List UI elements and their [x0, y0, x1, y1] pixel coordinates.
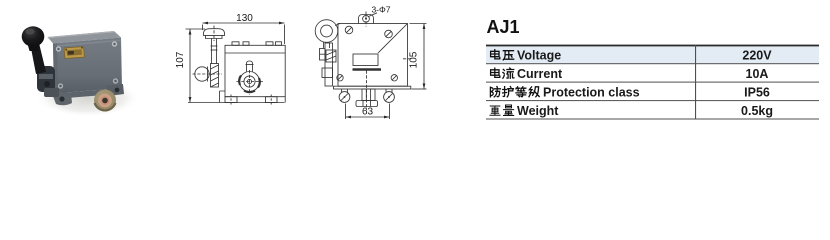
label ji (grade2) row3: [529, 87, 539, 97]
row line 2: [486, 82, 819, 83]
lid seam: [225, 52, 285, 54]
dim 107 line: [189, 29, 191, 103]
CJK stroke glyphs: [490, 50, 539, 116]
cable gland outer: [94, 90, 116, 112]
svg-text:3-Φ7: 3-Φ7: [371, 5, 390, 15]
hub outer: [315, 20, 338, 43]
boss outer circle: [240, 72, 260, 92]
eye screw left: [341, 89, 343, 93]
box body side: [338, 24, 408, 87]
svg-text:63: 63: [362, 107, 374, 118]
screw top-left: [345, 26, 353, 34]
dim 130 ext lines: [202, 25, 204, 31]
boss crosshair: [237, 81, 264, 83]
right edge center tick: [403, 58, 411, 60]
label ya (pressure) row1: [503, 51, 514, 60]
box body: [225, 45, 285, 96]
svg-text:10A: 10A: [746, 67, 769, 81]
band screw left: [337, 75, 343, 81]
hub centerline: [193, 73, 223, 75]
gland block: [362, 89, 375, 101]
window: [353, 54, 378, 66]
label liu (flow) row2: [503, 68, 514, 78]
svg-text:AJ1: AJ1: [487, 17, 520, 37]
svg-text:Current: Current: [517, 67, 563, 81]
corner screw BR: [113, 78, 118, 83]
mounting ear right: [106, 84, 124, 96]
ear hole left: [59, 96, 64, 101]
diagonal: [378, 24, 408, 54]
row line 1: [486, 62, 819, 65]
screw on diagonal: [385, 30, 393, 38]
mounting ear left: [51, 91, 72, 105]
row line 3: [486, 100, 819, 101]
dim 130 arrows: [203, 22, 209, 25]
lug centerline: [365, 12, 367, 27]
label hu (protect2) row3: [503, 87, 514, 97]
cable gland hole: [102, 98, 108, 104]
lever arm: [30, 43, 46, 74]
device front face lid seam highlight: [53, 40, 121, 48]
box right edge to base: [284, 97, 286, 103]
column divider: [695, 45, 696, 120]
lug leader: [369, 13, 378, 17]
svg-text:130: 130: [236, 13, 253, 24]
dim 107 top ext line: [186, 28, 206, 30]
foot left: [225, 97, 237, 103]
cable gland outer shade: [95, 103, 116, 110]
knob collar: [206, 36, 223, 39]
boss inner circles: [244, 76, 255, 87]
hub gusset: [335, 24, 340, 26]
label dian1 (electric) row1: [491, 50, 500, 59]
label deng (grade1) row3: [516, 87, 526, 97]
top lug: [359, 15, 374, 24]
bracket hatched: [211, 64, 219, 88]
svg-text:Weight: Weight: [517, 104, 559, 118]
row1 blue background: [486, 46, 819, 63]
bracket lower step: [322, 68, 333, 78]
base line / bottom ext: [188, 102, 285, 104]
cable gland inner ring: [100, 96, 109, 105]
foot right: [266, 97, 278, 103]
svg-text:220V: 220V: [742, 48, 772, 62]
gland nut: [356, 101, 378, 107]
svg-text:107: 107: [175, 51, 186, 68]
bracket hatch block: [326, 50, 336, 62]
dim 63 ext lines: [345, 104, 347, 120]
label fang (protect1) row3: [490, 87, 500, 97]
label dian2 (electric) row2: [491, 68, 500, 77]
ear hole right: [115, 88, 120, 93]
device top face edge highlight: [48, 31, 115, 38]
device bottom flange: [54, 88, 123, 99]
corner screw TL: [56, 46, 61, 51]
cable gland mid ring: [98, 94, 112, 108]
corner screw BL: [58, 83, 63, 88]
table top border: [486, 45, 819, 47]
photo soft shadow: [36, 79, 140, 117]
label zhong (weight1) row4: [490, 106, 500, 115]
bracket tabs: [320, 49, 326, 61]
nameplate: [64, 47, 84, 59]
base flange: [334, 86, 411, 89]
left bracket plate: [325, 43, 333, 86]
device front face: [53, 38, 122, 94]
lever hub assembly: [37, 66, 55, 92]
svg-text:Voltage: Voltage: [517, 48, 561, 62]
label liang (weight2) row4: [504, 105, 514, 116]
knob dome: [204, 29, 225, 36]
lever stem: [211, 39, 213, 65]
boss arcs: [239, 76, 241, 86]
device top face: [48, 31, 122, 44]
dim 130 line: [203, 22, 285, 24]
corner screw TR: [112, 41, 117, 46]
knob centerline: [213, 26, 215, 42]
dim 105 line: [423, 24, 425, 90]
device front face left edge shade: [53, 43, 58, 93]
lug hole: [363, 15, 370, 22]
hub inner: [321, 25, 333, 37]
svg-text:0.5kg: 0.5kg: [741, 104, 773, 118]
knob neck: [28, 46, 39, 52]
hub stem lines: [323, 42, 325, 48]
knob: [22, 26, 45, 46]
eye screw right: [385, 89, 387, 93]
svg-text:Protection class: Protection class: [543, 85, 640, 99]
left lower step: [220, 91, 226, 103]
table bottom border: [486, 119, 819, 120]
window lower bar: [353, 68, 382, 71]
dim 105 ext lines: [410, 23, 427, 25]
hub circle: [195, 67, 209, 81]
boss cap: [247, 61, 253, 72]
svg-text:IP56: IP56: [744, 85, 770, 99]
svg-text:105: 105: [409, 51, 420, 68]
band screw right: [391, 75, 397, 81]
top screw bumps: [232, 42, 239, 46]
dim 63 line: [346, 116, 390, 118]
dim 107 arrows: [189, 29, 192, 35]
gland centerline: [366, 71, 368, 111]
